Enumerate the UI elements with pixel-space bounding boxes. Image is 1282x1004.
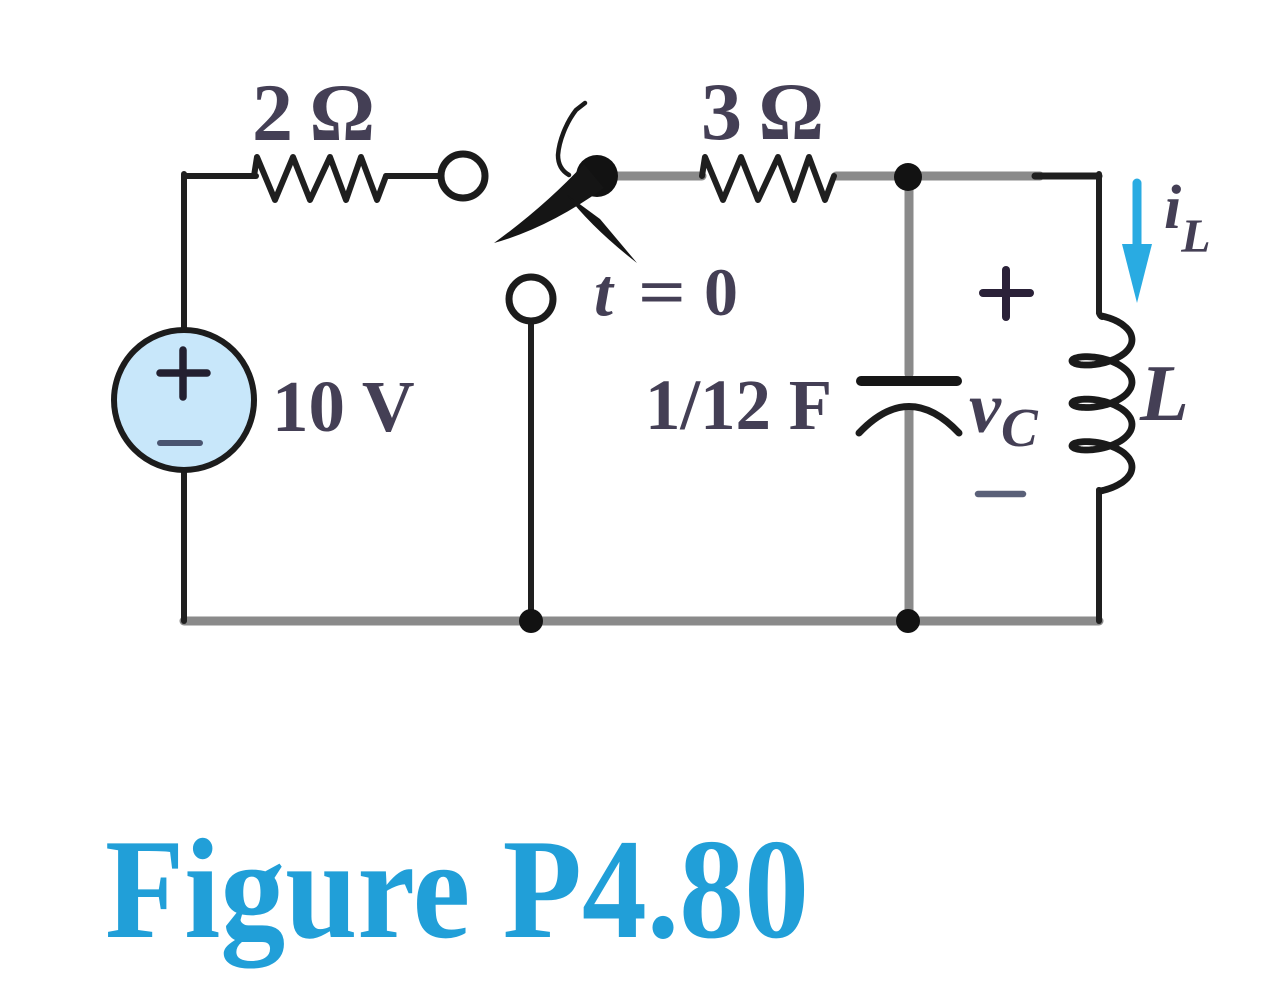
svg-text:3 Ω: 3 Ω <box>701 66 824 157</box>
svg-text:Figure P4.80: Figure P4.80 <box>105 810 809 969</box>
svg-text:L: L <box>1139 350 1189 438</box>
svg-text:1/12 F: 1/12 F <box>645 365 832 445</box>
svg-text:10 V: 10 V <box>272 366 415 447</box>
svg-text:2 Ω: 2 Ω <box>252 67 375 158</box>
